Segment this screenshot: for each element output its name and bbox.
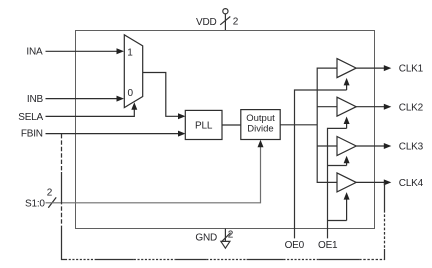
wire PLL to Output Divide bbox=[222, 124, 241, 126]
OE1 riser wire bbox=[328, 128, 347, 238]
svg-text:GND: GND bbox=[195, 232, 217, 243]
OE0 riser wire bbox=[295, 90, 347, 238]
external feedback wire along bottom bbox=[61, 259, 385, 261]
svg-text:FBIN: FBIN bbox=[21, 129, 43, 140]
Output Divide U3 bbox=[241, 110, 280, 140]
svg-text:CLK4: CLK4 bbox=[399, 178, 424, 189]
wire CLK1 output bbox=[356, 67, 385, 69]
OE0 enable arrow into buffer A1 bbox=[346, 84, 348, 91]
OE1 branch wire to buffer A3 enable bbox=[328, 165, 347, 167]
GND pin bbox=[221, 229, 231, 249]
svg-text:PLL: PLL bbox=[195, 121, 213, 132]
svg-text:2: 2 bbox=[233, 16, 239, 27]
buffer A2 bbox=[337, 97, 356, 116]
svg-text:CLK3: CLK3 bbox=[399, 142, 424, 153]
buffer A3 bbox=[337, 137, 356, 156]
svg-text:Divide: Divide bbox=[247, 123, 273, 134]
external feedback wire from CLK4 down right side bbox=[384, 182, 386, 260]
wire SELA to mux select bbox=[46, 109, 135, 117]
VDD pin bbox=[220, 9, 230, 30]
svg-text:OE0: OE0 bbox=[285, 240, 305, 251]
svg-text:2: 2 bbox=[47, 187, 53, 198]
svg-text:INA: INA bbox=[26, 46, 43, 57]
S1:0 bus slash bbox=[48, 197, 56, 207]
wire S1:0 to Output Divide bbox=[46, 146, 261, 203]
wire branch to CLK3 buffer input bbox=[317, 145, 337, 147]
wire FBIN to PLL bbox=[46, 133, 180, 135]
PLL U2 bbox=[185, 110, 222, 139]
wire CLK4 output bbox=[356, 181, 385, 183]
svg-text:INB: INB bbox=[27, 94, 44, 105]
svg-text:1: 1 bbox=[127, 47, 133, 58]
wire CLK2 output bbox=[356, 106, 385, 108]
wire INA to mux bbox=[46, 50, 118, 52]
svg-text:S1:0: S1:0 bbox=[25, 199, 45, 210]
svg-text:2: 2 bbox=[228, 230, 234, 241]
mux U1 bbox=[124, 35, 142, 108]
OE1 branch wire to buffer A4 enable bbox=[328, 220, 347, 222]
buffer A1 bbox=[337, 59, 356, 78]
clock distribution vertical wire bbox=[317, 68, 337, 182]
external feedback wire up left side to FBIN bbox=[61, 134, 63, 260]
chip outline box bbox=[76, 31, 375, 229]
svg-text:VDD: VDD bbox=[196, 17, 217, 28]
wire INB to mux bbox=[46, 98, 118, 100]
svg-text:CLK1: CLK1 bbox=[399, 64, 424, 75]
svg-text:0: 0 bbox=[128, 88, 134, 99]
wire mux output to PLL bbox=[143, 73, 180, 117]
wire branch to CLK2 buffer input bbox=[317, 106, 337, 108]
svg-text:CLK2: CLK2 bbox=[399, 102, 424, 113]
buffer A4 bbox=[337, 173, 356, 192]
wire CLK3 output bbox=[356, 145, 385, 147]
svg-text:OE1: OE1 bbox=[318, 240, 338, 251]
OE1 enable arrow into buffer A2 bbox=[346, 122, 348, 128]
wire Output Divide to clock distribution node bbox=[280, 124, 317, 126]
svg-text:SELA: SELA bbox=[18, 112, 43, 123]
